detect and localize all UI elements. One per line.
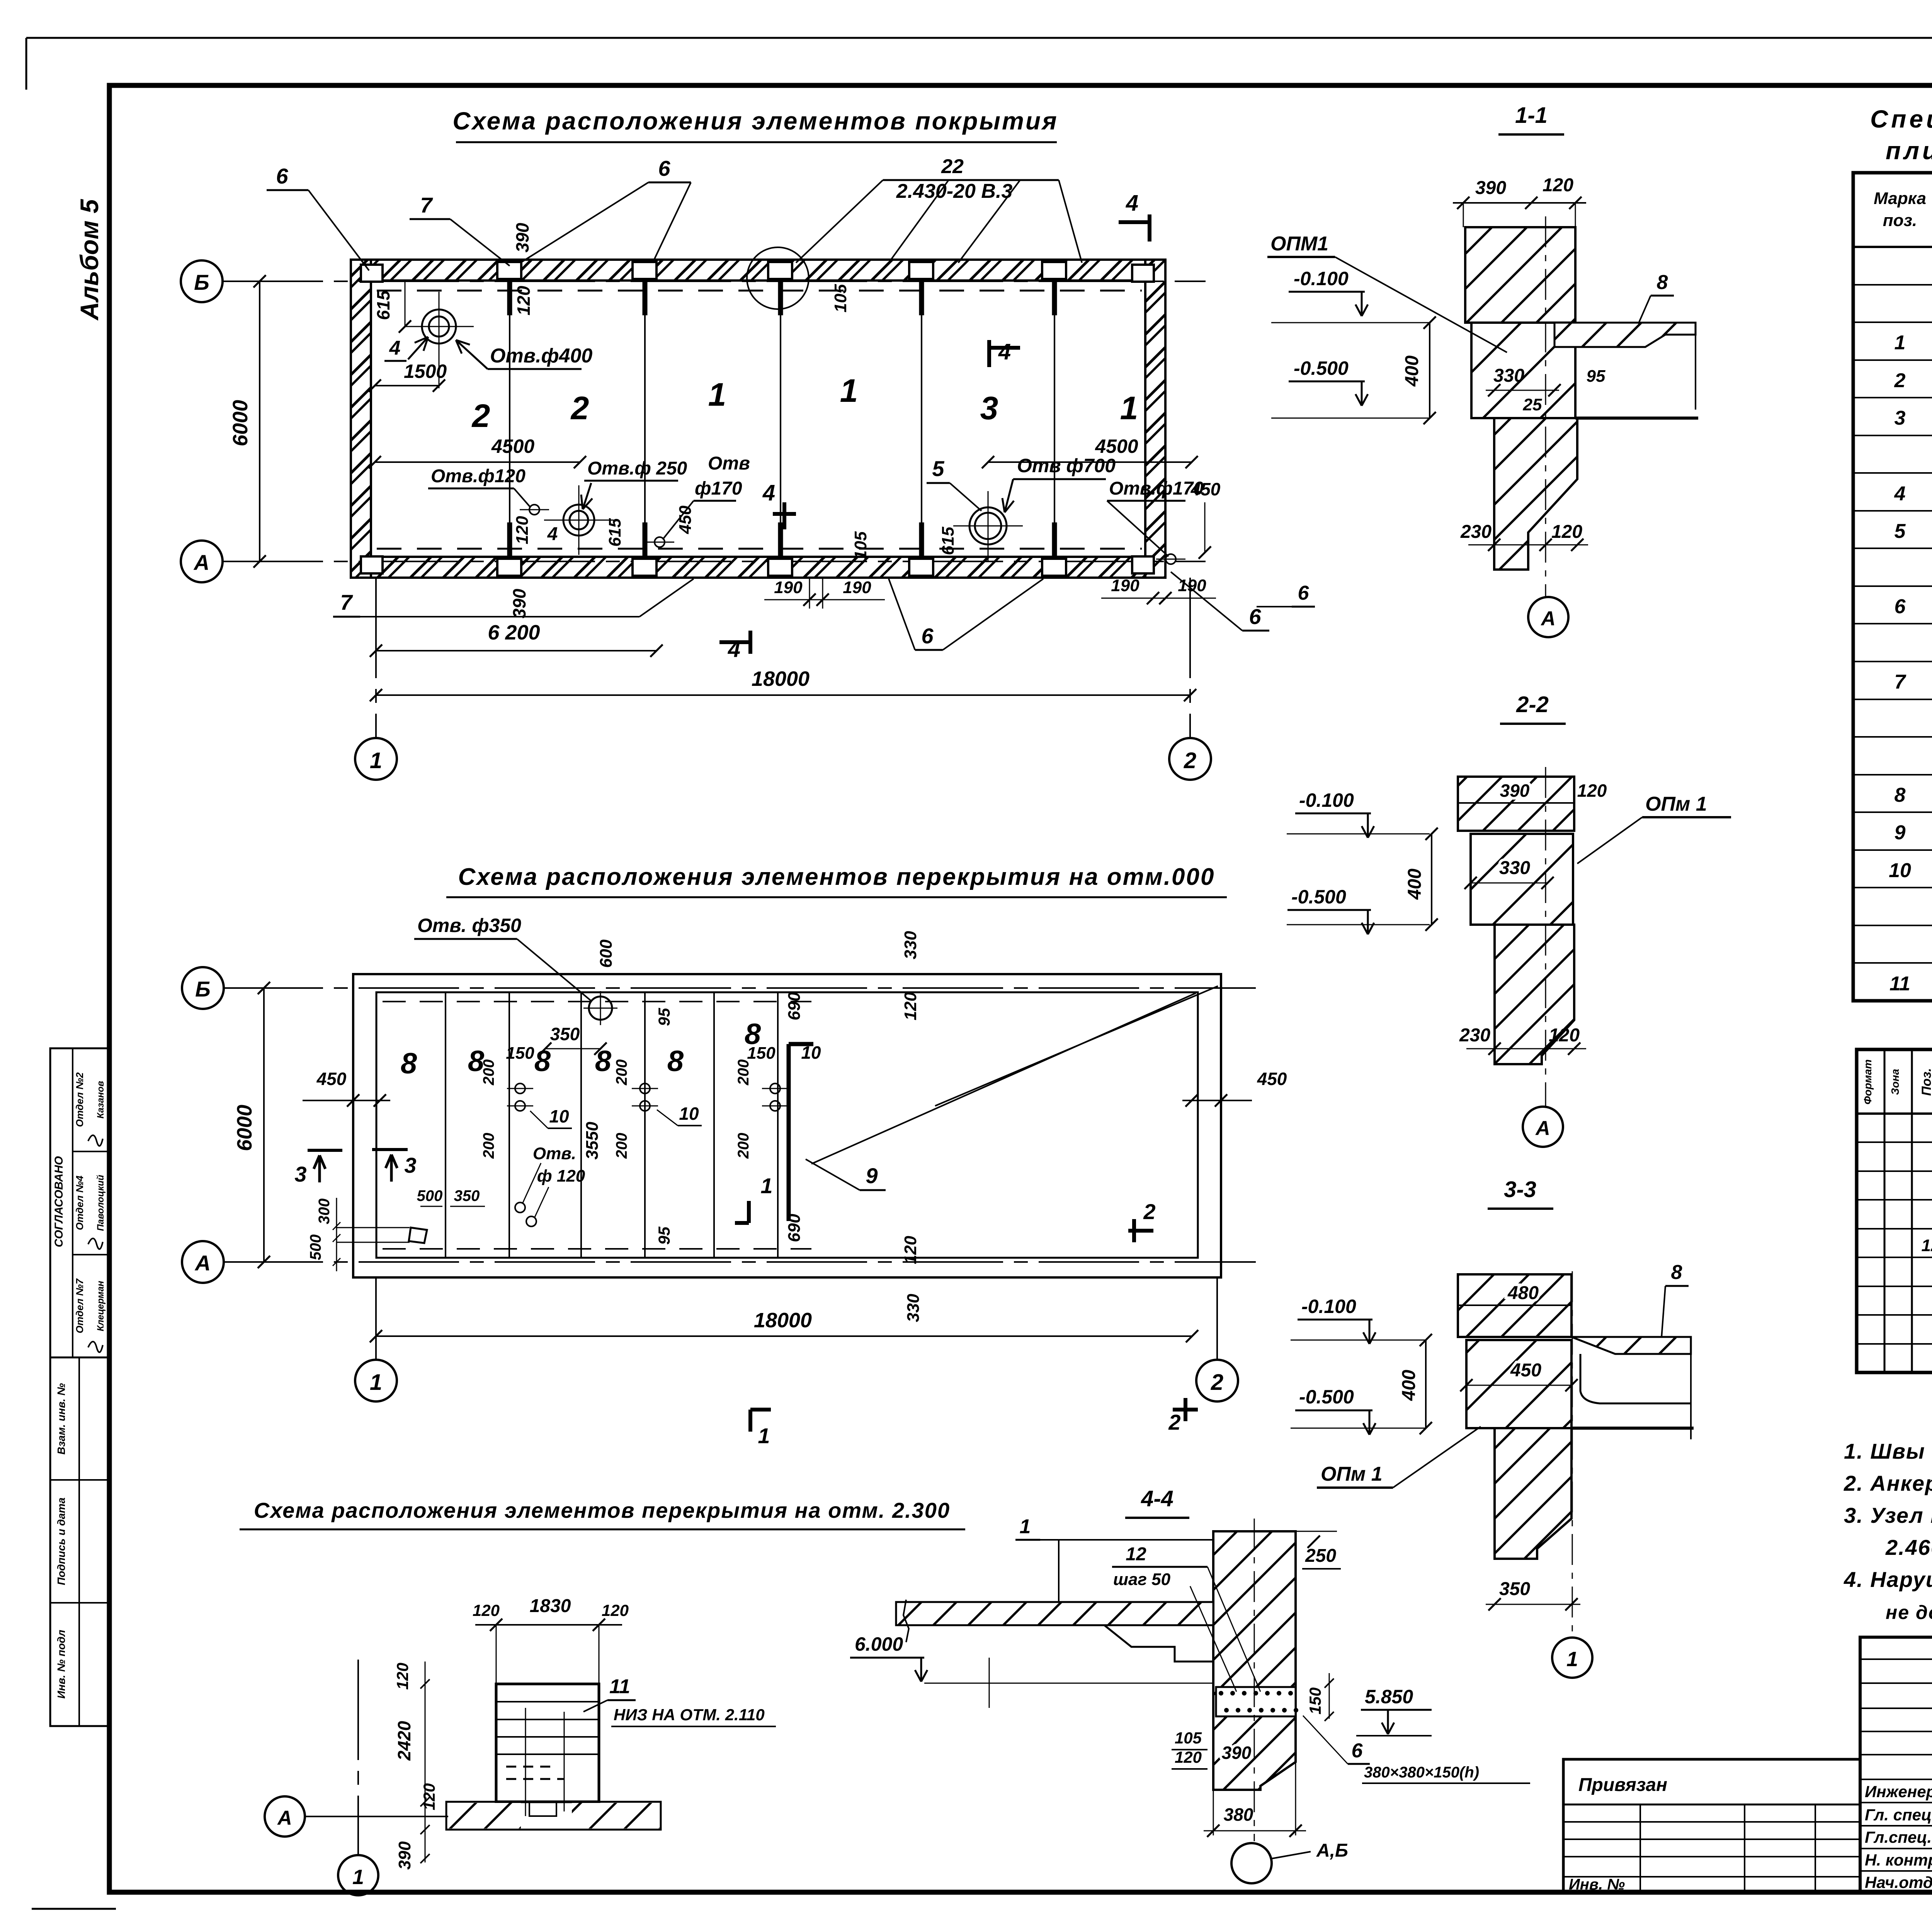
svg-text:1500: 1500	[404, 361, 447, 382]
svg-text:190: 190	[1178, 576, 1206, 595]
svg-text:Спецификация к схемам располож: Спецификация к схемам расположения элеме…	[1870, 105, 1932, 133]
svg-text:11: 11	[1889, 973, 1910, 995]
svg-text:Марка: Марка	[1874, 189, 1926, 208]
svg-text:105: 105	[831, 284, 850, 313]
svg-text:350: 350	[1499, 1579, 1530, 1599]
svg-text:600: 600	[597, 939, 616, 968]
svg-text:4-4: 4-4	[1141, 1486, 1173, 1511]
svg-text:6: 6	[658, 156, 670, 180]
svg-text:230: 230	[1459, 1025, 1490, 1046]
svg-text:2: 2	[1184, 748, 1196, 773]
svg-text:390: 390	[395, 1841, 414, 1870]
svg-text:200: 200	[480, 1060, 497, 1086]
svg-text:Отв. ф350: Отв. ф350	[417, 915, 521, 936]
svg-text:6: 6	[1352, 1740, 1363, 1762]
svg-text:9: 9	[1895, 821, 1906, 844]
svg-text:4500: 4500	[491, 435, 534, 457]
svg-text:-0.500: -0.500	[1291, 886, 1346, 908]
svg-text:Отв.ф400: Отв.ф400	[490, 345, 592, 367]
svg-text:плит перекрытия и покрытия.: плит перекрытия и покрытия.	[1886, 137, 1932, 165]
svg-text:5: 5	[1895, 520, 1906, 543]
svg-text:Отв.: Отв.	[533, 1144, 576, 1163]
svg-text:390: 390	[512, 223, 532, 252]
svg-text:4. Нарушение ребер плит при: 4. Нарушение ребер плит при пробивке отв…	[1844, 1567, 1932, 1592]
svg-text:690: 690	[785, 992, 804, 1020]
svg-text:1: 1	[370, 748, 382, 773]
svg-text:Н. контр.: Н. контр.	[1865, 1851, 1932, 1869]
svg-text:А: А	[1540, 607, 1556, 630]
svg-text:2: 2	[570, 390, 589, 426]
svg-text:95: 95	[655, 1226, 673, 1245]
svg-text:4: 4	[547, 524, 558, 544]
svg-text:2: 2	[1143, 1199, 1155, 1224]
svg-text:поз.: поз.	[1883, 211, 1917, 230]
svg-text:1: 1	[1020, 1515, 1031, 1538]
svg-text:1. Швы между плитами заполн: 1. Швы между плитами заполняются цементн…	[1844, 1439, 1932, 1463]
svg-text:330: 330	[1493, 366, 1524, 386]
svg-text:1-1: 1-1	[1515, 103, 1548, 128]
svg-text:6000: 6000	[233, 1105, 256, 1151]
svg-text:4: 4	[1894, 483, 1906, 505]
svg-text:ф 120: ф 120	[537, 1167, 585, 1185]
svg-text:Подпись и дата: Подпись и дата	[55, 1498, 67, 1585]
svg-text:3-3: 3-3	[1504, 1177, 1536, 1202]
svg-text:Отдел №2: Отдел №2	[74, 1072, 85, 1127]
svg-text:330: 330	[901, 931, 920, 959]
svg-text:8: 8	[667, 1045, 684, 1078]
svg-text:200: 200	[613, 1060, 630, 1086]
svg-text:2420: 2420	[394, 1721, 414, 1761]
svg-text:450: 450	[1510, 1360, 1541, 1381]
svg-text:18000: 18000	[752, 667, 810, 690]
svg-text:5: 5	[932, 456, 944, 481]
svg-text:7: 7	[340, 590, 353, 614]
svg-text:Взам. инв. №: Взам. инв. №	[55, 1383, 67, 1455]
svg-text:450: 450	[676, 505, 695, 534]
svg-text:120: 120	[514, 286, 534, 315]
svg-text:6: 6	[276, 164, 288, 188]
svg-text:Казанов: Казанов	[95, 1081, 106, 1118]
svg-text:200: 200	[735, 1133, 752, 1159]
svg-text:400: 400	[1405, 869, 1425, 900]
svg-text:Гл.спец.: Гл.спец.	[1865, 1828, 1932, 1846]
svg-text:390: 390	[509, 588, 529, 618]
svg-text:12: 12	[1126, 1544, 1146, 1565]
svg-text:18000: 18000	[754, 1309, 812, 1332]
svg-text:200: 200	[735, 1060, 752, 1086]
svg-text:500: 500	[307, 1235, 324, 1260]
svg-text:Схема расположения элементов п: Схема расположения элементов покрытия	[452, 107, 1058, 135]
svg-text:2: 2	[1894, 369, 1906, 392]
svg-text:-0.500: -0.500	[1299, 1386, 1354, 1408]
svg-text:330: 330	[1499, 858, 1530, 878]
svg-text:120: 120	[1175, 1748, 1202, 1766]
svg-text:1: 1	[840, 372, 858, 409]
svg-text:120: 120	[602, 1601, 629, 1619]
svg-text:190: 190	[774, 578, 803, 597]
svg-text:Отв.ф 250: Отв.ф 250	[587, 458, 687, 479]
svg-text:Отдел №4: Отдел №4	[74, 1175, 85, 1230]
svg-text:А: А	[1535, 1117, 1550, 1139]
svg-text:190: 190	[843, 578, 871, 597]
svg-text:7: 7	[1895, 671, 1906, 693]
svg-text:1: 1	[708, 376, 726, 413]
svg-text:2. Анкера (поз.7) защитить: 2. Анкера (поз.7) защитить обмазкой цеме…	[1844, 1471, 1932, 1495]
svg-text:12: 12	[1922, 1236, 1932, 1255]
svg-text:22: 22	[941, 155, 964, 178]
svg-text:615: 615	[939, 527, 957, 555]
svg-text:8: 8	[1895, 784, 1906, 806]
svg-text:330: 330	[904, 1294, 923, 1322]
svg-text:2.430-20 В.3: 2.430-20 В.3	[896, 180, 1013, 202]
svg-text:1: 1	[352, 1866, 364, 1889]
svg-text:ф170: ф170	[695, 478, 742, 499]
svg-text:615: 615	[373, 290, 393, 320]
svg-text:480: 480	[1507, 1283, 1539, 1303]
svg-text:250: 250	[1305, 1546, 1336, 1566]
svg-text:390: 390	[1475, 178, 1506, 198]
svg-text:1830: 1830	[530, 1596, 571, 1616]
svg-text:120: 120	[1577, 781, 1607, 801]
svg-text:3. Узел крепления стаканов: 3. Узел крепления стаканов к плитам покр…	[1844, 1503, 1932, 1527]
svg-text:8: 8	[534, 1045, 551, 1078]
svg-text:4: 4	[998, 339, 1011, 364]
svg-text:11: 11	[609, 1675, 630, 1698]
svg-text:2-2: 2-2	[1516, 692, 1549, 717]
svg-text:150: 150	[506, 1044, 534, 1063]
svg-text:3: 3	[404, 1153, 416, 1177]
svg-text:Поз.: Поз.	[1919, 1068, 1932, 1096]
svg-text:-0.100: -0.100	[1299, 789, 1354, 811]
svg-text:615: 615	[605, 518, 624, 547]
svg-text:Инв. № подл: Инв. № подл	[55, 1630, 67, 1699]
svg-text:Привязан: Привязан	[1578, 1775, 1667, 1795]
svg-text:Инженер: Инженер	[1865, 1782, 1932, 1801]
svg-text:Нач.отд.: Нач.отд.	[1865, 1873, 1932, 1891]
svg-text:400: 400	[1402, 355, 1422, 387]
svg-text:10: 10	[1889, 859, 1911, 882]
svg-text:1: 1	[1895, 332, 1906, 354]
svg-text:450: 450	[1257, 1069, 1287, 1089]
svg-text:5.850: 5.850	[1365, 1686, 1413, 1708]
svg-text:8: 8	[401, 1047, 417, 1080]
svg-text:Альбом 5: Альбом 5	[75, 199, 104, 321]
svg-text:10: 10	[549, 1106, 569, 1126]
svg-text:-0.100: -0.100	[1294, 268, 1349, 289]
svg-text:Зона: Зона	[1889, 1069, 1901, 1095]
svg-text:2: 2	[471, 398, 490, 434]
svg-text:6.000: 6.000	[855, 1633, 903, 1655]
svg-text:Отв.ф170: Отв.ф170	[1109, 478, 1204, 499]
svg-text:6000: 6000	[229, 400, 252, 446]
svg-text:6: 6	[921, 624, 934, 648]
svg-text:Клецерман: Клецерман	[95, 1281, 106, 1331]
svg-text:А: А	[194, 1251, 211, 1275]
svg-text:120: 120	[901, 1236, 920, 1264]
svg-text:450: 450	[1190, 479, 1221, 499]
svg-text:2.460- 14 В. О.: 2.460- 14 В. О.	[1885, 1535, 1932, 1560]
svg-text:Паволоцкий: Паволоцкий	[95, 1175, 106, 1231]
svg-text:350: 350	[454, 1187, 480, 1204]
svg-text:6: 6	[1895, 595, 1906, 618]
svg-text:380: 380	[1224, 1804, 1253, 1825]
svg-text:380×380×150(h): 380×380×150(h)	[1364, 1764, 1479, 1781]
svg-text:Отв: Отв	[708, 453, 750, 474]
svg-text:120: 120	[1551, 522, 1582, 542]
svg-text:Инв. №: Инв. №	[1569, 1876, 1625, 1893]
svg-text:А,Б: А,Б	[1316, 1840, 1348, 1861]
svg-text:1: 1	[1566, 1648, 1578, 1671]
svg-text:10: 10	[679, 1104, 699, 1124]
svg-text:350: 350	[550, 1024, 580, 1044]
svg-text:Формат: Формат	[1862, 1060, 1874, 1105]
svg-text:6 200: 6 200	[488, 621, 540, 644]
svg-text:1: 1	[1120, 390, 1138, 426]
svg-text:8: 8	[1671, 1261, 1682, 1284]
svg-text:-0.100: -0.100	[1301, 1296, 1356, 1317]
svg-text:ОПМ1: ОПМ1	[1270, 233, 1328, 255]
svg-text:120: 120	[901, 992, 920, 1020]
svg-text:200: 200	[480, 1133, 497, 1159]
svg-text:НИЗ НА ОТМ. 2.110: НИЗ НА ОТМ. 2.110	[614, 1706, 765, 1724]
svg-text:3: 3	[980, 390, 998, 426]
svg-text:4: 4	[389, 337, 401, 359]
svg-text:СОГЛАСОВАНО: СОГЛАСОВАНО	[53, 1156, 65, 1247]
svg-text:-0.500: -0.500	[1294, 357, 1349, 379]
svg-text:Схема расположения элементов п: Схема расположения элементов перекрытия …	[458, 864, 1215, 890]
svg-text:95: 95	[655, 1008, 673, 1026]
svg-text:500: 500	[417, 1187, 443, 1204]
svg-text:1: 1	[370, 1370, 382, 1395]
svg-text:ОПм 1: ОПм 1	[1321, 1463, 1383, 1485]
svg-text:3550: 3550	[583, 1122, 602, 1160]
svg-text:120: 120	[513, 516, 532, 544]
svg-text:4: 4	[1126, 190, 1138, 216]
svg-text:2: 2	[1168, 1410, 1180, 1434]
svg-text:7: 7	[420, 193, 433, 217]
svg-text:8: 8	[595, 1045, 612, 1078]
svg-text:300: 300	[316, 1199, 333, 1225]
svg-text:390: 390	[1500, 781, 1530, 801]
svg-text:9: 9	[866, 1163, 878, 1188]
svg-text:25: 25	[1523, 395, 1542, 414]
svg-text:Отв.ф120: Отв.ф120	[431, 466, 526, 486]
svg-text:120: 120	[393, 1663, 412, 1690]
svg-text:8: 8	[1657, 271, 1668, 294]
svg-text:шаг 50: шаг 50	[1113, 1570, 1171, 1589]
svg-text:1: 1	[760, 1173, 772, 1198]
svg-text:400: 400	[1399, 1370, 1419, 1401]
svg-text:Б: Б	[195, 977, 211, 1001]
svg-text:190: 190	[1111, 576, 1139, 595]
svg-text:390: 390	[1222, 1743, 1252, 1763]
svg-text:150: 150	[1306, 1687, 1324, 1714]
svg-text:95: 95	[1587, 367, 1605, 386]
svg-text:6: 6	[1249, 604, 1261, 629]
svg-text:Б: Б	[194, 270, 209, 294]
svg-text:200: 200	[613, 1133, 630, 1159]
svg-text:120: 120	[1543, 175, 1573, 196]
svg-text:105: 105	[1175, 1729, 1202, 1747]
svg-text:2: 2	[1211, 1370, 1223, 1395]
svg-text:не допускается. Привязка отв.: не допускается. Привязка отв. ф120 уточн…	[1886, 1602, 1932, 1623]
svg-text:1: 1	[758, 1423, 770, 1448]
svg-text:Отдел №7: Отдел №7	[74, 1278, 85, 1333]
svg-text:Гл. спец.: Гл. спец.	[1865, 1806, 1932, 1824]
svg-text:Схема расположения элементов п: Схема расположения элементов перекрытия …	[254, 1498, 950, 1522]
svg-text:3: 3	[1895, 407, 1906, 429]
svg-text:4: 4	[762, 480, 775, 505]
svg-text:ОПм 1: ОПм 1	[1645, 793, 1707, 815]
svg-text:450: 450	[316, 1069, 347, 1089]
svg-text:Отв ф700: Отв ф700	[1017, 455, 1116, 476]
svg-text:А: А	[277, 1807, 292, 1829]
svg-text:120: 120	[473, 1601, 500, 1619]
svg-text:6: 6	[1298, 582, 1310, 604]
svg-text:105: 105	[851, 531, 870, 560]
svg-text:3: 3	[294, 1162, 306, 1186]
svg-text:230: 230	[1460, 522, 1492, 542]
svg-text:120: 120	[1549, 1025, 1580, 1046]
svg-text:А: А	[193, 550, 209, 575]
svg-text:4500: 4500	[1095, 435, 1138, 457]
